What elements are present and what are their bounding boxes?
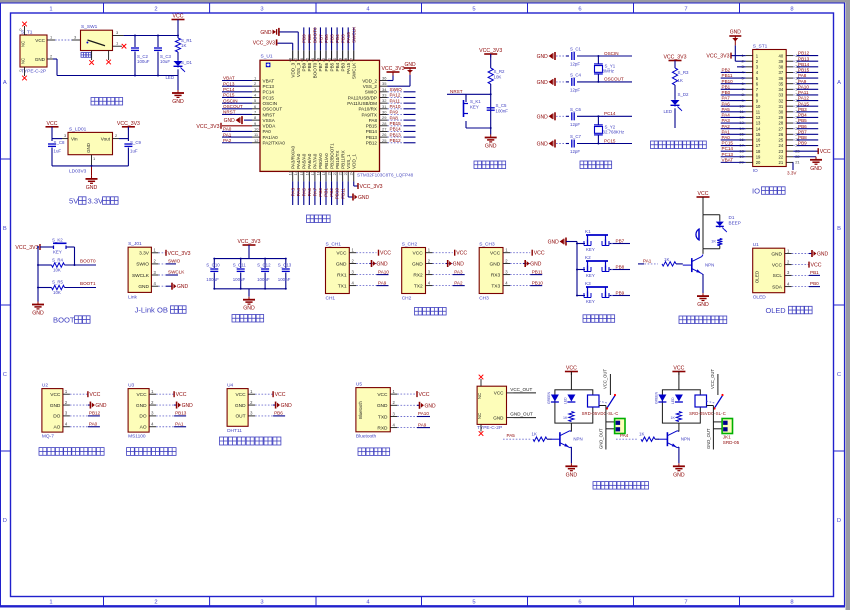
svg-text:PB7: PB7 — [318, 62, 323, 71]
svg-text:100nF: 100nF — [257, 277, 270, 282]
svg-text:GND: GND — [182, 403, 194, 409]
svg-text:12pF: 12pF — [570, 149, 580, 154]
svg-text:S_C12: S_C12 — [257, 263, 271, 268]
svg-text:VCC: VCC — [494, 391, 504, 396]
svg-text:K3: K3 — [585, 281, 591, 286]
svg-text:PC15: PC15 — [263, 95, 275, 100]
svg-text:PA5: PA5 — [722, 107, 731, 112]
svg-text:SWCLK: SWCLK — [352, 62, 357, 79]
svg-text:DO: DO — [139, 414, 146, 420]
svg-text:PB14: PB14 — [366, 129, 378, 134]
svg-text:VSS_3: VSS_3 — [296, 62, 301, 77]
svg-text:1K: 1K — [670, 416, 675, 420]
svg-text:PB11: PB11 — [722, 73, 733, 78]
svg-text:16: 16 — [756, 138, 761, 143]
svg-text:6: 6 — [578, 599, 581, 605]
svg-text:GND: GND — [377, 262, 389, 268]
svg-text:PA1: PA1 — [223, 132, 232, 137]
svg-text:VCC_3V3: VCC_3V3 — [117, 121, 140, 127]
svg-text:1K: 1K — [664, 257, 669, 262]
svg-text:S_R4: S_R4 — [52, 258, 64, 263]
svg-text:PB8: PB8 — [616, 264, 625, 269]
svg-text:SRD-05VDC-SL-C: SRD-05VDC-SL-C — [689, 411, 726, 416]
svg-text:VBAT: VBAT — [722, 157, 734, 162]
svg-text:PB13: PB13 — [366, 135, 378, 140]
svg-text:VCC: VCC — [377, 392, 388, 398]
svg-text:PB3: PB3 — [798, 107, 807, 112]
svg-text:GND: GND — [493, 416, 504, 421]
svg-text:CH1: CH1 — [326, 296, 336, 302]
svg-text:RX2: RX2 — [413, 272, 423, 278]
svg-text:PB8: PB8 — [307, 34, 312, 43]
svg-text:OSCIN: OSCIN — [223, 98, 238, 103]
svg-text:PA7/A0: PA7/A0 — [313, 153, 318, 169]
svg-text:GND: GND — [86, 185, 98, 191]
svg-text:S_C7: S_C7 — [570, 134, 582, 139]
svg-text:23: 23 — [779, 149, 784, 154]
svg-text:PB6: PB6 — [324, 34, 329, 43]
svg-text:PB1: PB1 — [324, 188, 329, 197]
svg-text:PB5: PB5 — [329, 62, 334, 71]
svg-text:25: 25 — [382, 138, 387, 143]
svg-text:SWIO: SWIO — [365, 90, 378, 95]
svg-text:Vin: Vin — [71, 137, 78, 142]
svg-text:31: 31 — [779, 104, 784, 109]
svg-text:RX1: RX1 — [337, 272, 347, 278]
svg-text:PB10: PB10 — [722, 79, 734, 84]
svg-text:21: 21 — [779, 160, 784, 165]
svg-text:NRST: NRST — [450, 89, 463, 94]
svg-text:18: 18 — [756, 149, 761, 154]
svg-text:NC: NC — [477, 413, 482, 419]
svg-text:VCC: VCC — [820, 149, 831, 155]
svg-text:28: 28 — [779, 121, 784, 126]
svg-text:26: 26 — [382, 132, 387, 137]
svg-text:19: 19 — [321, 170, 326, 175]
svg-text:PB15: PB15 — [366, 124, 378, 129]
svg-text:GND: GND — [537, 114, 549, 120]
svg-text:42: 42 — [322, 58, 326, 62]
svg-text:PB11: PB11 — [532, 269, 543, 274]
svg-text:GND: GND — [138, 284, 149, 290]
svg-text:PC14: PC14 — [722, 146, 734, 151]
svg-text:PC15: PC15 — [604, 138, 616, 143]
svg-text:S_R2: S_R2 — [494, 69, 506, 74]
svg-text:11: 11 — [756, 110, 761, 115]
svg-text:GREEN: GREEN — [654, 391, 658, 404]
svg-text:STM32F103C8T6_LQFP48: STM32F103C8T6_LQFP48 — [357, 173, 414, 178]
svg-text:GND: GND — [697, 302, 709, 308]
svg-text:VCC: VCC — [456, 251, 467, 257]
svg-text:PA7: PA7 — [313, 188, 318, 197]
svg-text:VDD_3: VDD_3 — [291, 62, 296, 77]
svg-text:3.3V: 3.3V — [88, 197, 105, 206]
svg-text:5: 5 — [472, 6, 475, 12]
svg-text:PB9: PB9 — [302, 34, 307, 43]
svg-text:PC15: PC15 — [722, 141, 734, 146]
svg-text:GND: GND — [566, 472, 578, 478]
svg-text:S_SW1: S_SW1 — [81, 24, 98, 30]
svg-text:8MHz: 8MHz — [603, 68, 614, 73]
svg-text:PB10: PB10 — [335, 188, 340, 200]
svg-text:SWCLK: SWCLK — [132, 273, 150, 279]
svg-text:JK1: JK1 — [723, 435, 731, 440]
svg-text:1K: 1K — [532, 432, 537, 437]
svg-text:VCC: VCC — [50, 392, 61, 398]
svg-text:GND: GND — [404, 62, 416, 68]
svg-text:PA10: PA10 — [378, 269, 389, 274]
svg-text:39: 39 — [339, 58, 343, 62]
svg-text:SWIO: SWIO — [390, 87, 403, 92]
svg-text:B: B — [837, 226, 841, 232]
svg-text:3: 3 — [260, 599, 263, 605]
svg-text:32.768KHz: 32.768KHz — [603, 129, 625, 134]
svg-text:PA0: PA0 — [89, 422, 98, 427]
svg-text:14: 14 — [293, 170, 298, 175]
svg-text:GND: GND — [377, 403, 388, 409]
svg-text:GND: GND — [537, 142, 549, 148]
svg-text:GND: GND — [817, 252, 829, 258]
svg-text:SWIO: SWIO — [136, 262, 149, 268]
svg-text:15: 15 — [756, 132, 761, 137]
svg-text:PB0/A0: PB0/A0 — [318, 153, 323, 169]
svg-text:A: A — [3, 80, 7, 86]
svg-text:NPN: NPN — [573, 437, 582, 442]
svg-text:PA12: PA12 — [390, 93, 401, 98]
svg-text:PB3: PB3 — [340, 34, 345, 43]
svg-text:GND: GND — [490, 261, 501, 267]
svg-text:31: 31 — [382, 104, 387, 109]
svg-text:PB12: PB12 — [366, 141, 378, 146]
svg-text:16: 16 — [304, 170, 309, 175]
svg-text:PB8: PB8 — [307, 62, 312, 71]
svg-text:41: 41 — [328, 58, 332, 62]
svg-text:CH3: CH3 — [479, 296, 489, 302]
svg-text:PA10: PA10 — [390, 104, 401, 109]
svg-text:U1: U1 — [753, 242, 759, 248]
svg-text:LED: LED — [663, 109, 672, 114]
svg-text:VCC_3V3: VCC_3V3 — [15, 245, 38, 251]
svg-text:20: 20 — [756, 160, 761, 165]
svg-text:PB6: PB6 — [324, 62, 329, 71]
svg-text:GND: GND — [35, 57, 46, 62]
svg-text:GND: GND — [412, 261, 423, 267]
svg-text:VCC: VCC — [380, 251, 391, 257]
svg-text:SRD-05: SRD-05 — [723, 440, 740, 445]
svg-text:33: 33 — [382, 92, 387, 97]
svg-text:VCC_OUT: VCC_OUT — [602, 369, 607, 389]
svg-text:VCC: VCC — [275, 392, 286, 398]
svg-text:GND: GND — [425, 403, 437, 409]
svg-text:PC14: PC14 — [223, 87, 235, 92]
svg-text:U4: U4 — [227, 383, 233, 389]
svg-text:VCC_3V3: VCC_3V3 — [360, 184, 383, 190]
svg-text:100uF: 100uF — [206, 277, 219, 282]
svg-text:PB0: PB0 — [810, 281, 819, 286]
svg-text:GND: GND — [95, 403, 107, 409]
svg-text:30: 30 — [779, 110, 784, 115]
svg-text:PA3: PA3 — [722, 118, 731, 123]
svg-text:29: 29 — [382, 115, 387, 120]
svg-text:PB11/RX: PB11/RX — [340, 150, 345, 169]
svg-text:30: 30 — [382, 109, 387, 114]
svg-text:S_ST1: S_ST1 — [753, 44, 768, 50]
svg-text:PB0: PB0 — [318, 188, 323, 197]
svg-text:PB2: PB2 — [329, 188, 334, 197]
svg-text:S_C10: S_C10 — [206, 263, 220, 268]
svg-text:PB11: PB11 — [340, 188, 345, 199]
svg-text:PB7: PB7 — [616, 238, 625, 243]
svg-text:100uF: 100uF — [137, 59, 150, 64]
svg-text:PB1: PB1 — [722, 84, 731, 89]
svg-text:PA5: PA5 — [507, 433, 516, 438]
svg-text:1K: 1K — [678, 78, 683, 83]
svg-text:LED: LED — [671, 397, 675, 404]
svg-text:S_C4: S_C4 — [570, 72, 582, 77]
svg-text:OSCIN: OSCIN — [263, 101, 278, 106]
svg-text:2: 2 — [154, 6, 157, 12]
svg-text:GND: GND — [260, 30, 272, 36]
svg-text:VBAT: VBAT — [263, 78, 275, 83]
svg-text:VCC: VCC — [173, 14, 184, 20]
svg-text:K2: K2 — [585, 255, 591, 260]
svg-text:S_D2: S_D2 — [678, 92, 690, 97]
svg-text:PB14: PB14 — [390, 127, 402, 132]
svg-text:PC14: PC14 — [263, 90, 275, 95]
svg-text:GND: GND — [281, 403, 293, 409]
svg-text:PA2: PA2 — [223, 138, 232, 143]
svg-text:18: 18 — [315, 170, 320, 175]
svg-text:KEY: KEY — [586, 273, 595, 278]
svg-text:PA5: PA5 — [301, 188, 306, 197]
svg-text:Vout: Vout — [101, 137, 111, 142]
svg-text:GND: GND — [673, 472, 685, 478]
svg-text:IO: IO — [753, 168, 758, 174]
svg-text:VSS_1: VSS_1 — [346, 154, 351, 169]
svg-text:S_C6: S_C6 — [570, 107, 582, 112]
svg-text:VCC_OUT: VCC_OUT — [510, 387, 532, 392]
svg-text:NC: NC — [21, 58, 26, 64]
svg-text:S_CH1: S_CH1 — [326, 242, 342, 248]
svg-text:PA8: PA8 — [369, 118, 378, 123]
svg-text:S_C1: S_C1 — [570, 47, 582, 52]
svg-text:PB15: PB15 — [798, 68, 810, 73]
svg-text:PA1: PA1 — [175, 422, 184, 427]
svg-text:PA7: PA7 — [722, 96, 731, 101]
svg-text:PA11: PA11 — [390, 98, 401, 103]
svg-text:PB6: PB6 — [798, 124, 807, 129]
svg-text:TX1: TX1 — [338, 283, 347, 289]
svg-text:43: 43 — [316, 58, 320, 62]
svg-text:BOOT1: BOOT1 — [80, 281, 96, 286]
svg-text:PA4/A0: PA4/A0 — [296, 153, 301, 169]
svg-text:3.3V: 3.3V — [787, 171, 797, 176]
svg-text:KEY: KEY — [586, 247, 595, 252]
svg-text:TX2: TX2 — [414, 283, 423, 289]
svg-text:25: 25 — [779, 138, 784, 143]
svg-text:PA2/TX/A0: PA2/TX/A0 — [263, 141, 286, 146]
svg-text:VCC: VCC — [47, 121, 58, 127]
svg-text:VCC: VCC — [772, 262, 783, 268]
svg-text:7: 7 — [684, 6, 687, 12]
svg-text:PB4: PB4 — [335, 62, 340, 71]
svg-text:S_LD01: S_LD01 — [69, 127, 87, 133]
svg-text:OLED: OLED — [753, 295, 767, 301]
svg-text:DO: DO — [53, 414, 60, 420]
svg-text:45: 45 — [305, 58, 309, 62]
svg-text:13: 13 — [756, 121, 761, 126]
svg-text:32: 32 — [779, 98, 784, 103]
svg-text:VDD_1: VDD_1 — [352, 154, 357, 169]
svg-text:12pF: 12pF — [570, 62, 580, 67]
svg-text:PA9: PA9 — [798, 79, 807, 84]
svg-text:PB9: PB9 — [798, 141, 807, 146]
svg-text:BEEP: BEEP — [729, 221, 741, 226]
svg-text:K1: K1 — [585, 229, 591, 234]
svg-text:AO: AO — [140, 425, 147, 431]
svg-text:BOOT: BOOT — [53, 315, 75, 324]
svg-text:12: 12 — [254, 138, 259, 143]
svg-text:10uF: 10uF — [160, 59, 170, 64]
svg-text:19: 19 — [756, 154, 761, 159]
svg-text:26: 26 — [779, 132, 784, 137]
svg-text:S_K1: S_K1 — [470, 99, 481, 104]
svg-text:GND: GND — [86, 143, 91, 153]
svg-text:PA3: PA3 — [454, 269, 463, 274]
svg-text:LED: LED — [563, 397, 567, 404]
svg-text:40: 40 — [779, 53, 784, 58]
svg-text:VCC: VCC — [136, 392, 147, 398]
svg-text:Bluetooth: Bluetooth — [358, 400, 363, 418]
svg-text:PA11: PA11 — [798, 90, 809, 95]
svg-text:PA6: PA6 — [307, 188, 312, 197]
svg-text:GND: GND — [336, 261, 347, 267]
svg-text:GND: GND — [172, 99, 184, 105]
svg-text:J-Link OB: J-Link OB — [135, 305, 168, 314]
svg-text:C: C — [3, 372, 7, 378]
svg-text:PC13: PC13 — [263, 84, 275, 89]
svg-text:GND: GND — [548, 240, 560, 246]
svg-text:PA10/RX: PA10/RX — [358, 107, 377, 112]
svg-text:10: 10 — [254, 126, 259, 131]
svg-text:PB12: PB12 — [89, 411, 101, 416]
svg-text:GND_OUT: GND_OUT — [598, 428, 603, 449]
svg-text:MS1100: MS1100 — [128, 434, 146, 440]
svg-text:100nF: 100nF — [496, 109, 509, 114]
svg-text:39: 39 — [779, 59, 784, 64]
svg-text:NC: NC — [477, 393, 482, 399]
svg-text:PA3/RX/A0: PA3/RX/A0 — [291, 146, 296, 169]
svg-text:NRST: NRST — [263, 112, 276, 117]
svg-text:PA15: PA15 — [346, 32, 351, 43]
svg-text:35: 35 — [382, 81, 387, 86]
svg-text:PA1/A0: PA1/A0 — [263, 135, 279, 140]
svg-text:GREEN: GREEN — [547, 391, 551, 404]
svg-text:PA4: PA4 — [296, 188, 301, 197]
svg-text:GND: GND — [177, 284, 189, 290]
svg-text:VCC_3V3: VCC_3V3 — [168, 251, 191, 257]
svg-text:GND: GND — [530, 262, 542, 268]
svg-text:PA8: PA8 — [798, 73, 807, 78]
svg-text:D: D — [3, 518, 7, 524]
svg-text:28: 28 — [382, 121, 387, 126]
svg-text:OSCOUT: OSCOUT — [263, 107, 283, 112]
svg-text:PA3: PA3 — [290, 188, 295, 197]
svg-text:100nF: 100nF — [278, 277, 291, 282]
svg-text:S_J01: S_J01 — [128, 241, 142, 247]
svg-text:VCC: VCC — [35, 38, 45, 43]
svg-text:PA12: PA12 — [798, 96, 809, 101]
svg-text:PB14: PB14 — [798, 62, 810, 67]
svg-text:A: A — [837, 80, 841, 86]
svg-text:1: 1 — [49, 6, 52, 12]
svg-text:VCC: VCC — [811, 263, 822, 269]
svg-text:PA6/A0: PA6/A0 — [307, 153, 312, 169]
svg-text:GND: GND — [810, 166, 822, 172]
svg-text:10K: 10K — [494, 75, 502, 80]
svg-text:PA9: PA9 — [378, 280, 387, 285]
svg-text:D1: D1 — [729, 215, 735, 220]
svg-text:21: 21 — [332, 170, 337, 175]
svg-text:VCC_3V3: VCC_3V3 — [196, 124, 219, 130]
svg-text:PB10: PB10 — [532, 280, 544, 285]
svg-text:TX3: TX3 — [491, 283, 500, 289]
svg-text:PB3: PB3 — [340, 62, 345, 71]
svg-text:20: 20 — [327, 170, 332, 175]
svg-text:OSCOUT: OSCOUT — [223, 104, 243, 109]
svg-text:VCC_3V3: VCC_3V3 — [479, 48, 502, 54]
svg-text:GND: GND — [485, 144, 497, 150]
svg-text:33: 33 — [779, 93, 784, 98]
svg-text:B: B — [3, 226, 7, 232]
svg-text:PB12: PB12 — [390, 138, 402, 143]
svg-text:KEY: KEY — [53, 250, 62, 255]
svg-text:10: 10 — [756, 104, 761, 109]
svg-text:PA15: PA15 — [798, 101, 809, 106]
svg-text:5V: 5V — [69, 197, 79, 206]
svg-text:1K: 1K — [563, 416, 568, 420]
svg-text:GND: GND — [730, 30, 742, 36]
svg-text:38: 38 — [779, 65, 784, 70]
svg-text:GND: GND — [453, 262, 465, 268]
svg-text:GND: GND — [537, 54, 549, 60]
svg-text:U3: U3 — [128, 383, 134, 389]
svg-text:PB12: PB12 — [798, 51, 810, 56]
svg-text:PB1/A0: PB1/A0 — [324, 153, 329, 169]
svg-text:SWCLK: SWCLK — [168, 269, 185, 274]
svg-text:RXD: RXD — [377, 425, 388, 431]
svg-text:12pF: 12pF — [570, 122, 580, 127]
svg-text:GND: GND — [537, 80, 549, 86]
svg-text:PA1: PA1 — [722, 129, 731, 134]
svg-text:KEY: KEY — [586, 299, 595, 304]
svg-text:SCL: SCL — [773, 273, 783, 279]
svg-text:VCC: VCC — [490, 251, 501, 257]
svg-text:S_CH3: S_CH3 — [479, 242, 495, 248]
svg-text:VCC_3V3: VCC_3V3 — [253, 41, 275, 47]
svg-text:44: 44 — [311, 58, 315, 62]
svg-text:PA10: PA10 — [418, 411, 429, 416]
svg-text:U5: U5 — [356, 382, 362, 388]
svg-text:GND: GND — [136, 403, 147, 409]
svg-text:GND_OUT: GND_OUT — [706, 428, 711, 449]
svg-text:34: 34 — [779, 87, 784, 92]
svg-text:VCC: VCC — [566, 366, 577, 372]
svg-text:VCC_3V3: VCC_3V3 — [237, 239, 260, 245]
svg-text:CH2: CH2 — [402, 296, 412, 302]
svg-text:1uF: 1uF — [54, 149, 62, 154]
svg-text:SDA: SDA — [772, 284, 783, 290]
